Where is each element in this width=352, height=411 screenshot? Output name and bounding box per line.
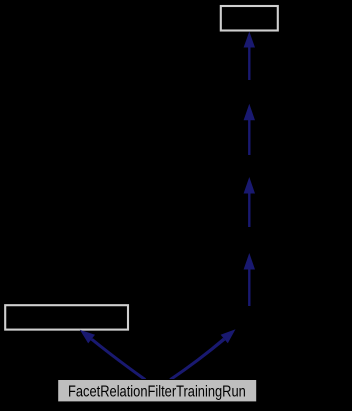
node box bottom: FacetRelationFilterTrainingRun (current class, grey75 fill) — [58, 380, 257, 402]
svg-text:FacetRelationFilterTrainingRun: FacetRelationFilterTrainingRun — [68, 384, 246, 401]
node box top (empty ancestor node) — [221, 6, 278, 31]
edge E2 vertical inheritance arrow — [244, 104, 255, 155]
edge E1 vertical inheritance arrow to top box — [244, 32, 255, 81]
edge E3 vertical inheritance arrow — [244, 177, 255, 227]
edge D1 diagonal inheritance arrow to left box — [80, 330, 146, 381]
node box left (empty base node) — [5, 305, 128, 329]
edge E4 vertical inheritance arrow — [244, 253, 255, 306]
edge D2 diagonal inheritance arrow to hidden node — [169, 329, 235, 380]
